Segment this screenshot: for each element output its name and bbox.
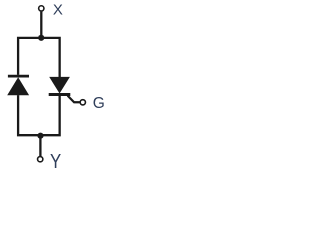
terminal G: open circle [80, 100, 85, 105]
svg-text:G: G [93, 95, 105, 112]
diode D1 cathode bar [8, 75, 29, 78]
node: bottom junction dot [37, 133, 43, 139]
terminal X: open circle [39, 6, 44, 11]
wire: stem from terminal X to top junction [40, 12, 42, 38]
diode D1 triangle (anode, pointing up) [7, 77, 29, 95]
thyristor SCR triangle (anode, pointing down) [49, 77, 70, 94]
wire: stem from bottom junction to terminal Y [39, 136, 41, 157]
thyristor SCR cathode bar [49, 93, 71, 96]
terminal Y: open circle [38, 157, 43, 162]
svg-text:Y: Y [50, 149, 61, 172]
wire: gate lead to terminal G [68, 96, 80, 103]
wire: top rail with left and right branch drops [18, 38, 60, 77]
wire: bottom rail with left and right branch risers [18, 95, 60, 135]
svg-text:X: X [53, 1, 63, 18]
node: top junction dot [38, 35, 44, 41]
